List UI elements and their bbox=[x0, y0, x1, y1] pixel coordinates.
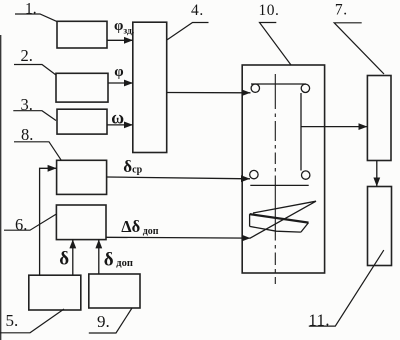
svg-text:1.: 1. bbox=[25, 1, 37, 18]
svg-text:5.: 5. bbox=[6, 311, 19, 330]
wire delta: block5 up into block6 bbox=[72, 239, 74, 275]
wire: block10 output to block7 bbox=[301, 126, 368, 128]
svg-text:8.: 8. bbox=[21, 125, 33, 144]
wire delta_sr: block8 to block10 lower roller bbox=[107, 177, 250, 179]
svg-text:6.: 6. bbox=[15, 215, 27, 234]
block 3 bbox=[57, 109, 107, 134]
leader line label 2 bbox=[14, 65, 56, 76]
svg-text:δ: δ bbox=[59, 249, 69, 270]
wire phi: block2 to block4 bbox=[108, 82, 133, 84]
leader line label 6 bbox=[4, 214, 56, 230]
screw band right cap bbox=[301, 223, 309, 233]
scan page edge bbox=[0, 35, 2, 340]
screw band left cap bbox=[249, 214, 251, 226]
wire: block7 down to block11 bbox=[376, 161, 378, 187]
roller bottom-left bbox=[250, 170, 258, 178]
block 11 bbox=[368, 187, 392, 266]
screw band top edge (bold) bbox=[250, 214, 309, 223]
top rail bbox=[251, 83, 306, 85]
screw long diagonal bbox=[250, 201, 316, 238]
block 4 (controller) bbox=[133, 22, 167, 152]
wire phi_zd: block1 to block4 bbox=[107, 39, 133, 41]
svg-text:9.: 9. bbox=[97, 312, 110, 331]
svg-text:2.: 2. bbox=[21, 46, 33, 65]
svg-text:7.: 7. bbox=[335, 2, 348, 19]
block 10 (actuator unit) bbox=[242, 65, 324, 273]
block10 internals bbox=[250, 74, 316, 284]
leader line label 11 bbox=[309, 250, 384, 326]
leader line label 5 bbox=[0, 309, 64, 333]
wire: block4 output into block10 upper roller bbox=[167, 92, 251, 94]
block 5 bbox=[29, 275, 81, 310]
wire delta_dop: block9 up into block6 bbox=[98, 239, 100, 274]
roller bottom-right bbox=[302, 171, 310, 179]
screw upper diagonal bbox=[253, 201, 316, 213]
bottom rail bbox=[250, 184, 308, 186]
svg-text:Δδ доп: Δδ доп bbox=[121, 217, 158, 237]
right guide line bbox=[300, 93, 302, 171]
svg-text:3.: 3. bbox=[21, 95, 33, 114]
svg-text:10.: 10. bbox=[259, 2, 280, 19]
block 9 bbox=[89, 274, 140, 308]
leader line label 1 bbox=[15, 14, 57, 22]
centerline (dash-dot axis) bbox=[274, 74, 276, 284]
block 1 (setpoint sensor) bbox=[57, 21, 107, 48]
block 8 bbox=[57, 160, 107, 194]
leader line label 9 bbox=[89, 308, 132, 333]
svg-text:11.: 11. bbox=[309, 311, 331, 330]
wire delta-delta_dop: block6 to block10 screw bbox=[106, 236, 251, 239]
leader line label 7 bbox=[334, 23, 384, 74]
leader line label 8 bbox=[14, 142, 61, 161]
wire omega: block3 to block4 bbox=[107, 124, 133, 126]
svg-text:φ: φ bbox=[114, 64, 123, 80]
block 7 bbox=[367, 76, 391, 161]
signal labels (bold serif) bbox=[59, 18, 158, 270]
block 2 bbox=[56, 73, 108, 102]
leader line label 10 bbox=[260, 23, 292, 66]
wire feedback: block5 up and into block8 bbox=[40, 168, 57, 275]
svg-text:4.: 4. bbox=[191, 2, 204, 19]
svg-text:φзд.: φзд. bbox=[114, 18, 134, 37]
svg-text:ω: ω bbox=[111, 107, 124, 127]
svg-text:δср: δср bbox=[123, 157, 142, 176]
svg-text:δ доп: δ доп bbox=[104, 249, 133, 270]
screw band bottom edge bbox=[250, 226, 301, 232]
roller top-right bbox=[301, 84, 309, 92]
block 6 bbox=[56, 205, 106, 240]
leader line label 3 bbox=[13, 111, 56, 121]
leader line label 4 bbox=[167, 23, 208, 40]
roller top-left bbox=[251, 84, 259, 92]
